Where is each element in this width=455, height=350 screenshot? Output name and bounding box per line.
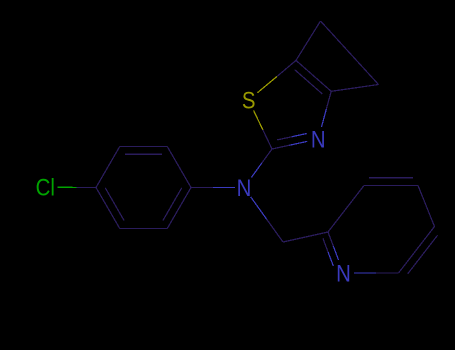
phenyl bond C4-C3 (96, 146, 120, 187)
bond C5 thiazole - CH2a fused ring (296, 21, 321, 60)
thiazole bond C4=C5 main (296, 60, 331, 91)
thiazole bond C2=N3 main (272, 145, 290, 149)
bond N amine - CH2 (251, 197, 267, 220)
pyridine bond C3=C4 main (364, 185, 418, 187)
svg-text:S: S (242, 87, 256, 114)
phenyl bond C5-C4 (96, 188, 120, 229)
bond Cl-C4 phenyl (58, 186, 77, 188)
bond CH2a - CH2b fused ring (321, 21, 379, 85)
thiazole C4=C5 second line (295, 70, 323, 94)
phenyl C6=C1 inner line (163, 188, 182, 221)
bond CH2b - C4 thiazole (331, 85, 378, 92)
phenyl bond C3-C2 (120, 145, 167, 147)
bond CH2 - C2 pyridine (283, 232, 328, 242)
pyridine C3=C4 second line (369, 177, 413, 179)
thiazole bond S-C5 (258, 77, 277, 93)
thiazole bond S-C2 (254, 111, 263, 130)
pyridine bond C2-C3 (328, 186, 364, 233)
pyridine bond C5=C6 main (399, 227, 435, 274)
svg-text:N: N (237, 174, 252, 201)
svg-text:N: N (311, 126, 326, 153)
pyridine C5=C6 second line (408, 235, 438, 274)
svg-text:N: N (336, 260, 351, 287)
pyridine bond C6-N1 (376, 272, 398, 274)
bond N amine - C2 thiazole (251, 163, 261, 177)
thiazole bond N3-C4 (322, 109, 327, 127)
pyridine bond C2=N1 main (328, 232, 333, 246)
bond C1 phenyl - N amine (191, 187, 213, 189)
svg-text:Cl: Cl (36, 174, 55, 201)
phenyl bond C1-C6 (167, 188, 191, 229)
phenyl C2=C3 inner line (125, 153, 162, 155)
pyridine C2=N1 second line (323, 238, 328, 252)
phenyl C4=C5 inner line (105, 188, 124, 221)
thiazole C2=N3 second line (277, 137, 292, 140)
phenyl bond C6-C5 (120, 228, 167, 230)
pyridine bond C4-C5 (418, 186, 435, 227)
phenyl bond C2-C1 (167, 146, 191, 187)
